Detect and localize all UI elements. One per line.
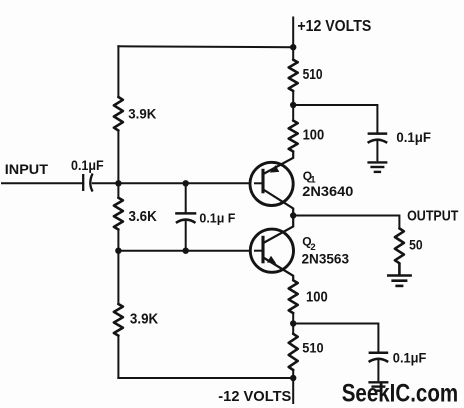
transistor Q1 2N3640 PNP bbox=[250, 152, 293, 216]
svg-text:510: 510 bbox=[303, 67, 323, 83]
capacitor 0.1uF between base lines bbox=[175, 183, 196, 250]
svg-text:-12 VOLTS: -12 VOLTS bbox=[218, 388, 291, 405]
wire left column between 3.6K and lower 3.9K bbox=[117, 230, 119, 305]
svg-text:3.6K: 3.6K bbox=[129, 208, 157, 225]
capacitor 0.1uF top right bypass bbox=[368, 134, 388, 162]
svg-text:100: 100 bbox=[306, 289, 328, 306]
svg-text:+12 VOLTS: +12 VOLTS bbox=[297, 18, 371, 35]
svg-text:0.1μF: 0.1μF bbox=[396, 129, 431, 145]
wire output line from emitter junction bbox=[293, 216, 399, 229]
resistor 3.9K lower left bbox=[114, 304, 123, 336]
capacitor 0.1uF input coupling bbox=[83, 174, 92, 192]
wire input line from capacitor to Q1 base bbox=[93, 182, 263, 184]
capacitor 0.1uF bottom right bypass bbox=[369, 353, 389, 382]
transistor Q2 2N3563 NPN bbox=[250, 216, 293, 281]
svg-text:0.1μ F: 0.1μ F bbox=[199, 210, 235, 225]
node +12V rail junction bbox=[290, 44, 296, 50]
resistor 3.9K upper left bbox=[114, 97, 123, 131]
wire -12V stub below rail bbox=[292, 370, 294, 403]
node Q2 base junction on left column bbox=[115, 248, 121, 254]
svg-text:100: 100 bbox=[303, 126, 325, 143]
svg-text:0.1μF: 0.1μF bbox=[71, 158, 104, 173]
wire branch to bottom-right capacitor bbox=[293, 324, 378, 353]
wire between 510 and 100 on +12V column bbox=[292, 91, 294, 121]
node input junction on left column bbox=[115, 180, 121, 186]
wire input lead left of capacitor bbox=[2, 182, 83, 184]
ground below top-right capacitor bbox=[367, 162, 387, 172]
wire left column top segment bbox=[117, 46, 119, 97]
node top bypass branch junction bbox=[290, 102, 296, 108]
wire left column bottom segment bbox=[117, 336, 119, 378]
svg-text:OUTPUT: OUTPUT bbox=[407, 208, 458, 224]
svg-text:2N3563: 2N3563 bbox=[302, 251, 350, 266]
ground below 50 ohm load bbox=[387, 263, 412, 286]
resistor 50 output load bbox=[395, 228, 404, 263]
svg-text:3.9K: 3.9K bbox=[130, 310, 158, 327]
svg-text:3.9K: 3.9K bbox=[128, 106, 156, 122]
node middle capacitor bottom bbox=[183, 248, 189, 254]
node bottom bypass branch junction bbox=[290, 320, 296, 326]
svg-text:2N3640: 2N3640 bbox=[302, 184, 353, 199]
svg-text:SeekIC.com: SeekIC.com bbox=[342, 380, 459, 407]
resistor 510 bottom right bbox=[289, 334, 298, 370]
wire branch to top-right capacitor bbox=[293, 105, 377, 134]
svg-text:510: 510 bbox=[302, 340, 323, 355]
wire between bottom 100 and 510 resistors bbox=[292, 313, 294, 334]
resistor 100 top right bbox=[289, 121, 298, 152]
wire +12V column top bbox=[292, 18, 294, 60]
svg-text:50: 50 bbox=[409, 237, 423, 253]
wire left column between 3.9K and 3.6K bbox=[117, 131, 119, 198]
ground below bottom-right capacitor bbox=[368, 382, 388, 390]
wire Q2 base line bbox=[118, 250, 263, 252]
node middle capacitor top bbox=[183, 180, 189, 186]
resistor 100 bottom right bbox=[289, 280, 298, 313]
node emitter output junction bbox=[290, 212, 296, 218]
wire bottom rail bbox=[118, 377, 293, 379]
svg-text:0.1μF: 0.1μF bbox=[393, 350, 427, 366]
wire top rail from left column to +12V column bbox=[118, 45, 293, 48]
svg-text:INPUT: INPUT bbox=[5, 161, 49, 177]
resistor 510 top right bbox=[289, 60, 298, 91]
node -12V rail junction bbox=[290, 375, 296, 381]
resistor 3.6K bbox=[114, 198, 123, 230]
